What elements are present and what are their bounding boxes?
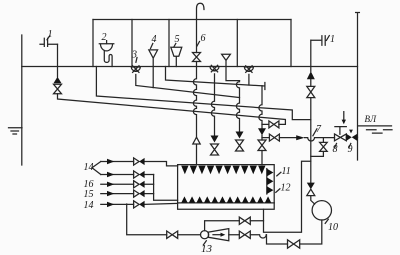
svg-text:6: 6 [201, 33, 206, 44]
svg-text:11: 11 [282, 166, 291, 177]
svg-text:8: 8 [333, 144, 338, 155]
svg-text:12: 12 [281, 183, 291, 194]
svg-text:1: 1 [330, 34, 335, 45]
svg-text:15: 15 [84, 189, 94, 200]
svg-text:9: 9 [348, 144, 353, 155]
svg-text:ВЛ: ВЛ [365, 114, 377, 124]
svg-text:14: 14 [84, 162, 94, 173]
svg-text:13: 13 [201, 243, 213, 255]
svg-text:10: 10 [328, 222, 338, 233]
svg-text:3: 3 [131, 50, 137, 61]
svg-text:2: 2 [102, 32, 107, 43]
svg-text:14: 14 [84, 200, 94, 211]
svg-text:5: 5 [175, 34, 180, 45]
svg-text:4: 4 [152, 34, 157, 45]
svg-text:1: 1 [48, 29, 53, 40]
